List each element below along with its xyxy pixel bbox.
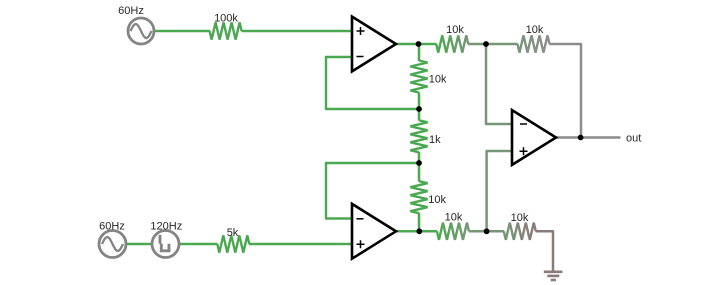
svg-text:60Hz: 60Hz xyxy=(118,5,144,17)
svg-text:60Hz: 60Hz xyxy=(99,221,125,233)
resistor R8 10k bottom-left xyxy=(437,223,469,240)
wire R6 to node E xyxy=(468,43,486,46)
resistor R4 1k vertical xyxy=(410,120,427,152)
AC source V1 sine icon xyxy=(131,24,152,38)
wire R3 to node B xyxy=(418,93,421,110)
op-amp U3 - input marker xyxy=(520,123,527,125)
wire R5 to node D xyxy=(418,213,421,231)
AC source V2 sine icon xyxy=(102,237,123,251)
resistor R3 10k vertical xyxy=(410,61,427,93)
wire node E down to U3 - input xyxy=(486,44,513,124)
svg-text:10k: 10k xyxy=(526,24,544,36)
svg-text:10k: 10k xyxy=(445,212,463,224)
node E junction dot xyxy=(483,41,489,47)
svg-text:120Hz: 120Hz xyxy=(150,221,182,233)
resistor R5 10k vertical xyxy=(410,181,427,213)
op-amp U2 - input marker xyxy=(357,218,364,220)
svg-text:10k: 10k xyxy=(428,194,446,206)
node C junction dot xyxy=(416,160,422,166)
op-amp U1 xyxy=(352,17,396,72)
svg-text:10k: 10k xyxy=(429,74,447,86)
node G junction dot xyxy=(484,228,490,234)
wire U1 output to node A xyxy=(394,43,420,46)
resistor R1 100k xyxy=(210,22,242,39)
svg-text:10k: 10k xyxy=(446,24,464,36)
wire U2 feedback: - input left, up, to node C xyxy=(326,163,419,219)
wire R4 to node C xyxy=(418,152,421,163)
square source V3 square-wave icon xyxy=(160,235,169,251)
svg-text:100k: 100k xyxy=(214,13,238,25)
wire node G to R9 xyxy=(487,230,504,233)
wire R7 to corner and down to node F (feedback) xyxy=(549,44,581,138)
svg-text:10k: 10k xyxy=(511,212,529,224)
wire R2 to op-amp U2 + input xyxy=(249,243,353,246)
resistor R2 5k xyxy=(217,235,249,252)
node A junction dot xyxy=(416,41,422,47)
wire node B to R4 xyxy=(418,109,421,121)
svg-text:1k: 1k xyxy=(429,134,441,146)
svg-text:5k: 5k xyxy=(227,227,239,239)
wire node G up to U3 + input xyxy=(487,151,513,231)
op-amp U2 + input marker xyxy=(357,240,365,248)
wire node A down to R3 xyxy=(418,44,421,61)
resistor R9 10k bottom-right xyxy=(504,223,536,240)
wire R9 right to ground corner xyxy=(536,231,553,270)
wire source V3 to R2 xyxy=(179,243,218,246)
resistor R6 10k top-left xyxy=(436,35,468,52)
wire U2 output to node D xyxy=(394,230,420,233)
wire U1 feedback: - input left, down, to node B xyxy=(326,57,419,109)
node D junction dot xyxy=(416,228,422,234)
wire R1 to op-amp U1 + input xyxy=(242,30,354,33)
svg-text:out: out xyxy=(626,133,641,145)
node B junction dot xyxy=(416,106,422,112)
resistor R7 10k top-right xyxy=(518,35,550,52)
wire node F to out terminal xyxy=(581,136,621,139)
op-amp U1 + input marker xyxy=(357,27,365,35)
wire node E to R7 xyxy=(486,43,518,46)
op-amp U2 xyxy=(352,204,396,259)
wire U3 output to node F xyxy=(554,136,581,139)
wire R8 to node G xyxy=(469,230,487,233)
node F junction dot xyxy=(578,135,584,141)
op-amp U1 - input marker xyxy=(357,56,364,58)
wire source V1 to R1 xyxy=(154,30,210,33)
AC source V2 60Hz circle xyxy=(99,231,126,258)
AC source V1 60Hz circle xyxy=(128,18,154,44)
wire node D to R8 xyxy=(419,230,437,233)
wire node A to R6 xyxy=(419,43,437,46)
op-amp U3 + input marker xyxy=(520,147,528,155)
wire node C to R5 xyxy=(418,163,421,182)
wire source V2 to source V3 xyxy=(126,243,152,246)
ground symbol xyxy=(544,272,563,280)
op-amp U3 xyxy=(512,110,556,165)
square source V3 120Hz circle xyxy=(152,231,179,258)
